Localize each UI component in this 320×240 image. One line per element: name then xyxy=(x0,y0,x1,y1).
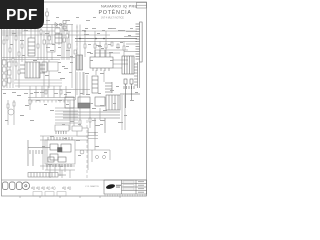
svg-text:JNT 4 MULTI NOTICE: JNT 4 MULTI NOTICE xyxy=(101,18,124,20)
svg-text:d() d() d() d() d(): d() d() d() d() d() xyxy=(31,186,56,190)
svg-text:POTÊNCIA: POTÊNCIA xyxy=(99,8,132,16)
svg-text:NAVARRO IQ PRE: NAVARRO IQ PRE xyxy=(101,5,138,9)
svg-text:d() d(): d() d() xyxy=(62,186,71,190)
svg-text:PDF: PDF xyxy=(6,7,38,24)
svg-text:V. R. MARTIN: V. R. MARTIN xyxy=(85,185,99,188)
